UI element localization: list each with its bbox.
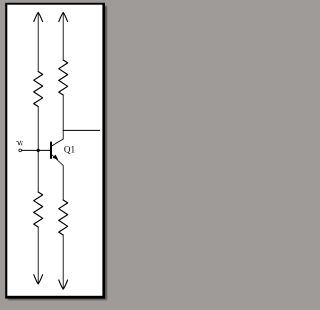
label v_i (17, 141, 23, 145)
wire collector diagonal (52, 139, 64, 146)
wire left rail middle (37, 107, 39, 193)
input terminal circle (19, 149, 22, 152)
wire emitter down (62, 166, 64, 201)
resistor R3 (right top) (59, 60, 68, 95)
wire left rail bottom shaft (37, 227, 39, 284)
emitter arrowhead (53, 155, 58, 159)
resistor R1 (left top) (34, 72, 43, 107)
page drop shadow (8, 6, 107, 300)
arrow down right (59, 280, 68, 289)
arrow up right (59, 12, 68, 21)
wire input (22, 149, 39, 151)
page frame (5, 3, 105, 299)
wire output line (63, 129, 99, 131)
wire left rail top shaft (37, 13, 39, 72)
wire right rail bottom shaft (62, 235, 64, 289)
wire base (38, 149, 51, 151)
arrow down left (34, 275, 43, 284)
resistor R2 (left bottom) (34, 192, 43, 227)
transistor Q1 base bar (50, 143, 52, 159)
wire emitter diagonal (52, 155, 64, 166)
svg-text:Q1: Q1 (64, 145, 76, 155)
node junction dot (37, 149, 40, 152)
wire right rail top shaft (62, 13, 64, 60)
resistor R4 (right bottom) (59, 200, 68, 235)
wire right rail to collector (62, 95, 64, 139)
page (7, 5, 102, 296)
arrow up left (34, 12, 43, 21)
